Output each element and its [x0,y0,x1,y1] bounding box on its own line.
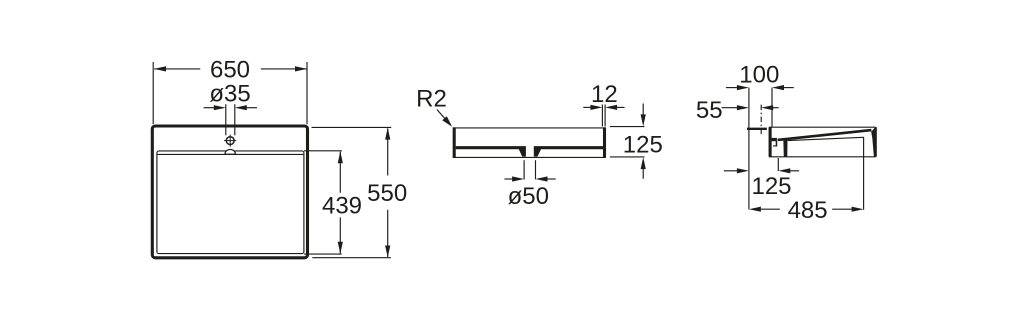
front outline top [453,127,606,129]
svg-text:125: 125 [751,173,791,200]
svg-text:550: 550 [367,180,407,207]
ledge step [776,141,778,147]
front outline bottom [453,156,606,158]
svg-text:100: 100 [739,61,779,88]
svg-text:R2: R2 [416,85,447,112]
dimension 439 extension lines [304,150,342,152]
faucet hole crosshair [229,135,231,147]
svg-text:125: 125 [623,131,663,158]
front right wall [603,127,606,157]
mounting hole centerline [760,105,762,135]
faucet hole circle [226,137,234,145]
dimension 439 line [339,152,341,193]
svg-text:439: 439 [322,193,362,220]
dimension 125 (side) extension line [777,158,779,171]
svg-text:ø35: ø35 [209,80,250,107]
dimension 12 arrows [583,106,592,108]
side outline top [769,126,876,128]
dimension ø50 arrows [504,178,514,180]
dimension 12 extension lines [601,105,603,127]
basin inner rim rectangle [157,151,304,254]
front basin floor left [456,146,526,157]
front basin floor right [534,146,603,157]
side outline bottom [769,156,876,158]
inner back wall wedge [783,139,787,157]
inner slope line [157,153,303,155]
front left wall [453,127,456,157]
dimension 125 (side) arrows [724,170,739,172]
dimension 125 (front) arrows [642,104,644,117]
svg-text:ø50: ø50 [508,183,549,210]
dimension 100 extension line [771,88,773,127]
dimension ø35 extension lines [225,104,227,135]
basin outer rectangle [152,126,307,258]
dimension 485 extension line [863,137,865,210]
overflow arc [225,149,236,154]
interior floor line [788,137,864,140]
mounting ledge [772,138,777,141]
dimension 485 line [761,208,780,210]
wall bracket tick [747,128,767,130]
side back wall [769,127,772,157]
front face wedge [871,127,877,157]
dimension 650 line [154,68,200,70]
dimension 650 extension lines [152,62,154,124]
R2 leader arrow [437,110,448,122]
rim slope line [778,130,872,140]
dimension ø50 extension lines [523,160,525,179]
dimension 550 line [387,128,389,175]
dimension 550 extension lines [312,126,392,128]
svg-text:55: 55 [696,97,723,124]
svg-text:12: 12 [591,81,618,108]
dimension 100 arrows [726,87,739,89]
dimension 125 (front) extension lines [610,126,645,128]
dimension 55 arrows [722,107,739,109]
dimension ø35 arrows [204,107,216,109]
wall reference line [748,88,750,210]
svg-text:485: 485 [788,197,828,224]
slot tick [773,145,777,146]
